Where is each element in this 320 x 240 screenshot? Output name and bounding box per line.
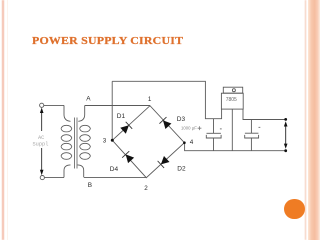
svg-text:B: B bbox=[88, 182, 92, 189]
svg-text:7805: 7805 bbox=[226, 97, 237, 103]
svg-text:D2: D2 bbox=[177, 166, 186, 173]
svg-text:D3: D3 bbox=[177, 116, 186, 123]
svg-text:AC: AC bbox=[38, 135, 44, 141]
svg-text:3: 3 bbox=[103, 137, 107, 144]
svg-text:Suppl: Suppl bbox=[33, 142, 49, 148]
svg-text:A: A bbox=[86, 96, 91, 103]
svg-text:D1: D1 bbox=[117, 113, 126, 120]
svg-text:2: 2 bbox=[144, 185, 148, 192]
svg-text:D4: D4 bbox=[110, 166, 119, 173]
svg-text:4: 4 bbox=[190, 139, 194, 146]
svg-text:1000 μF: 1000 μF bbox=[181, 126, 197, 131]
svg-text:1: 1 bbox=[148, 96, 152, 103]
